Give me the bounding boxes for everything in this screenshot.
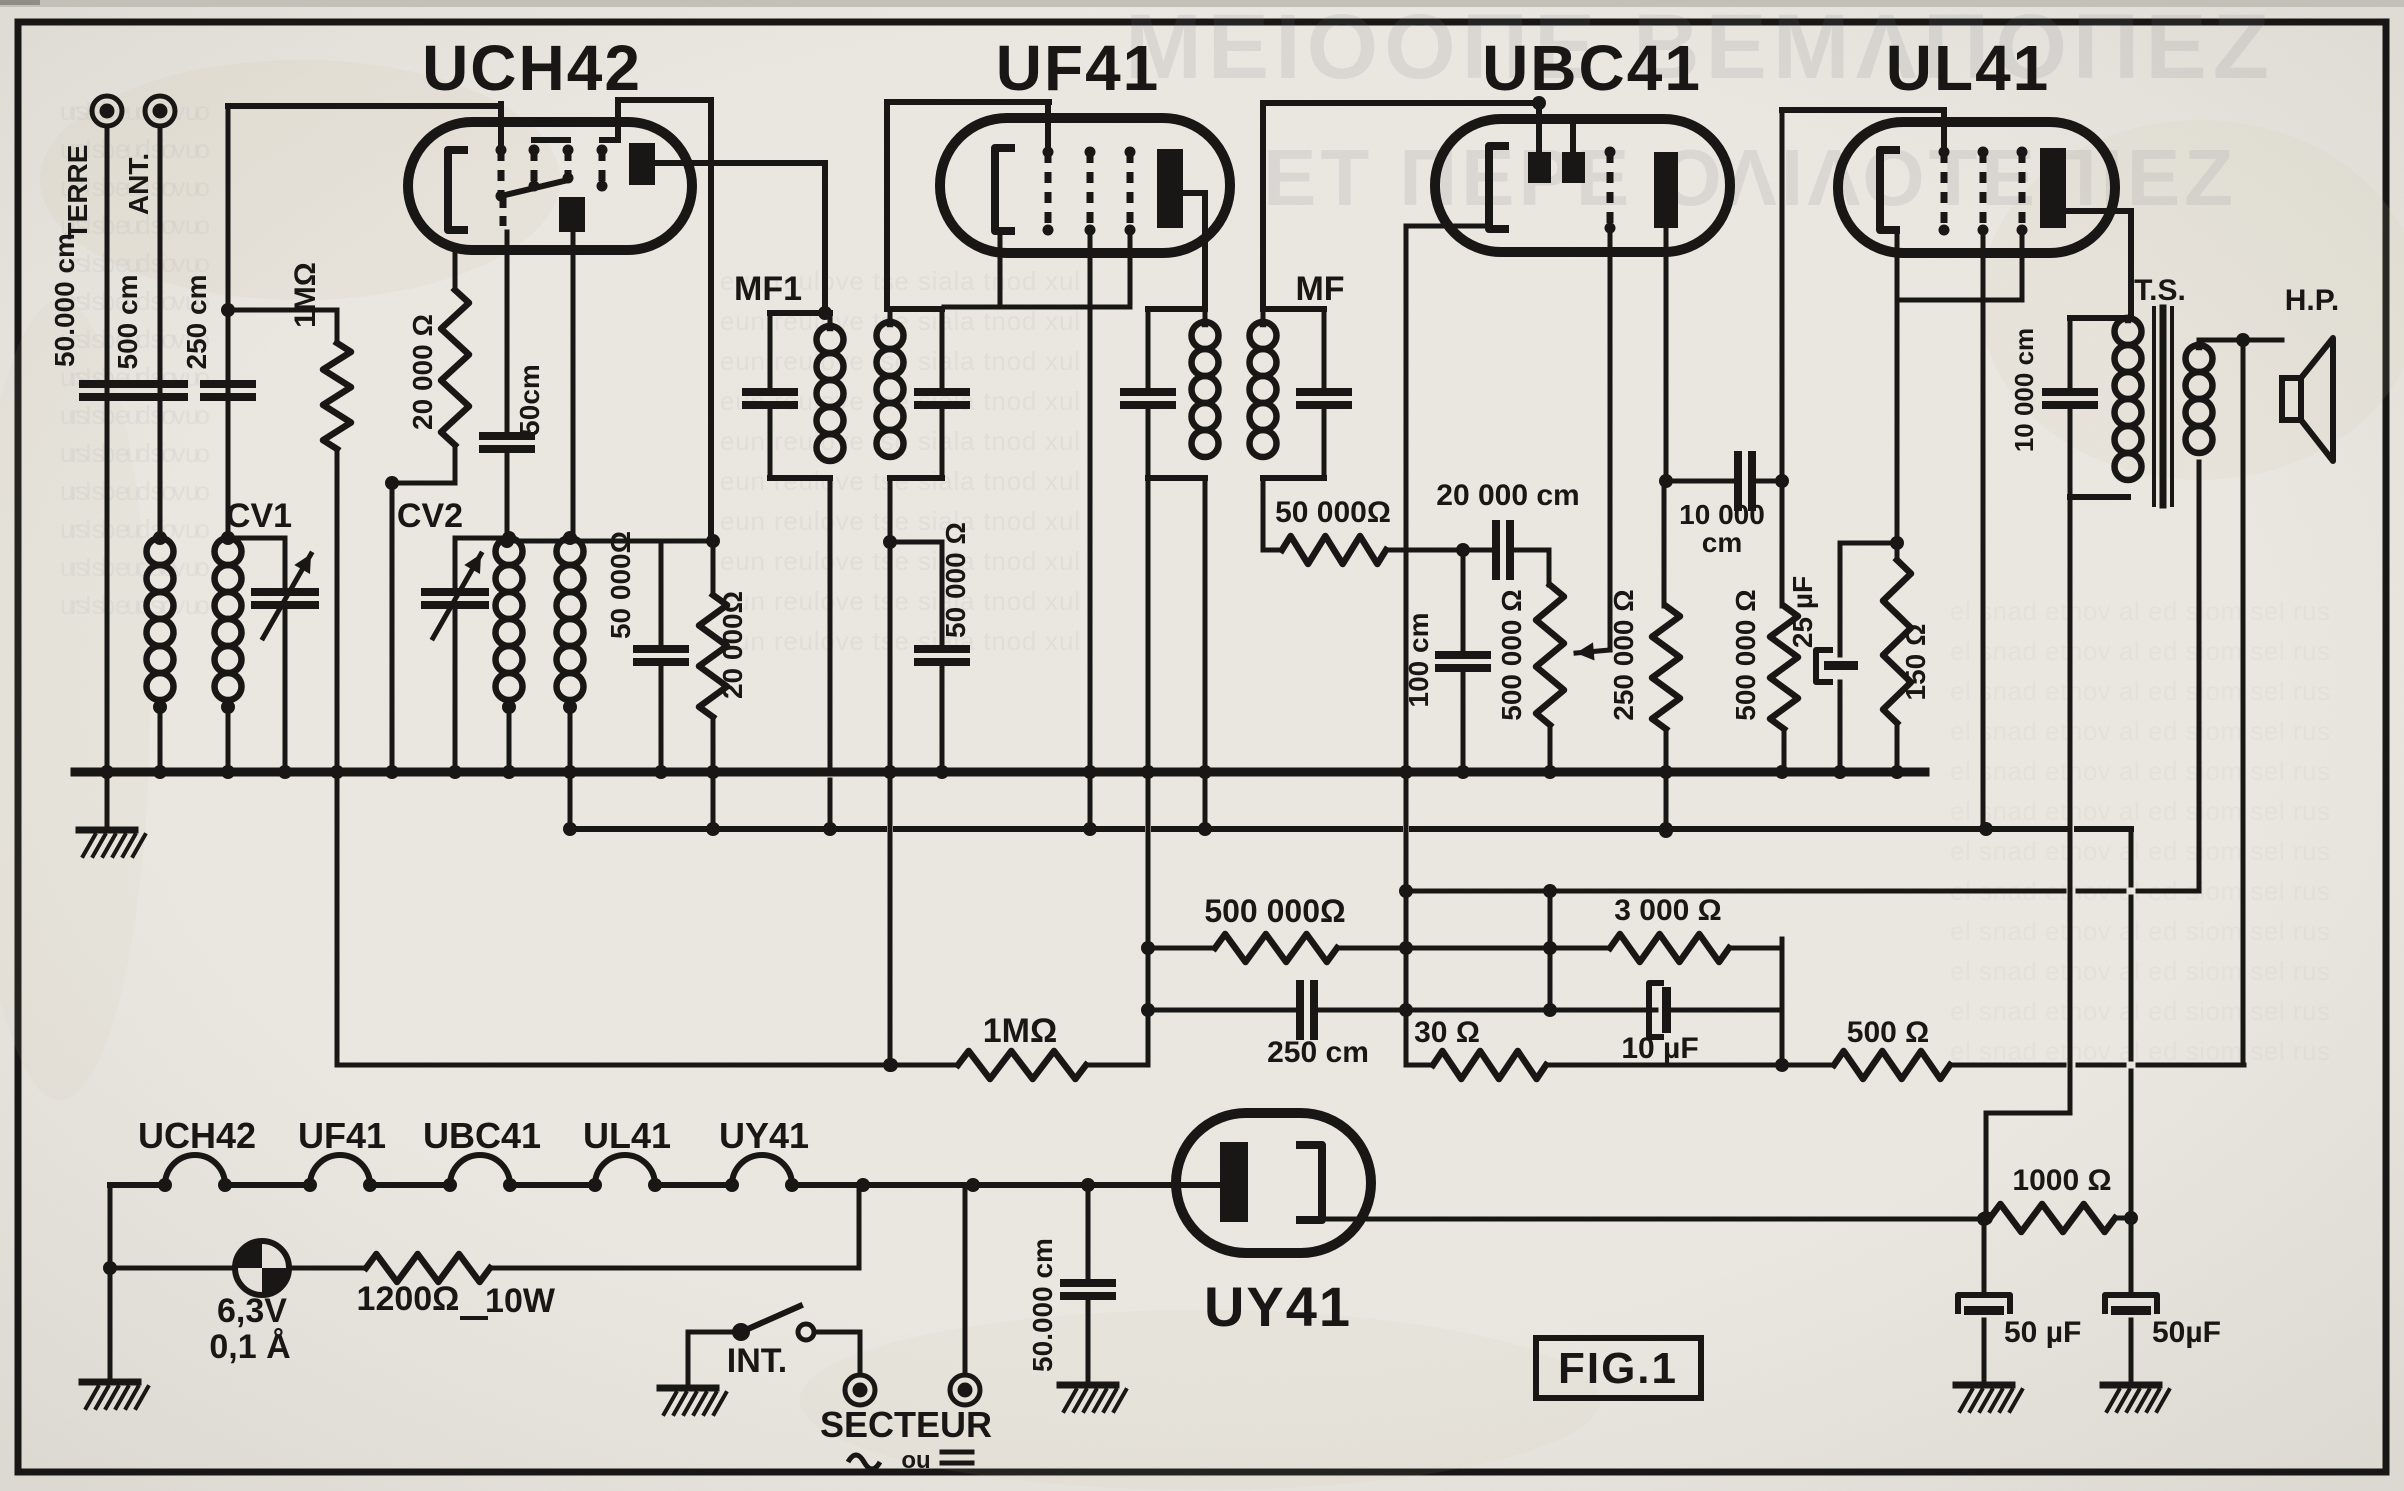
svg-text:FIG.1: FIG.1: [1558, 1344, 1678, 1393]
svg-text:el snad etnov al ed siom sel r: el snad etnov al ed siom sel rus: [1950, 836, 2330, 866]
svg-text:50 000Ω: 50 000Ω: [605, 531, 636, 639]
svg-text:10 µF: 10 µF: [1621, 1032, 1698, 1065]
svg-text:30 Ω: 30 Ω: [1414, 1016, 1480, 1049]
svg-text:150 Ω: 150 Ω: [1900, 624, 1931, 701]
svg-text:500 000 Ω: 500 000 Ω: [1730, 589, 1761, 720]
svg-text:eun reulove tse siala tnod xul: eun reulove tse siala tnod xul: [720, 506, 1080, 536]
svg-text:eun reulove tse siala tnod xul: eun reulove tse siala tnod xul: [720, 626, 1080, 656]
svg-text:MF1: MF1: [734, 270, 802, 308]
svg-text:el snad etnov al ed siom sel r: el snad etnov al ed siom sel rus: [1950, 636, 2330, 666]
svg-text:el snad etnov al ed siom sel r: el snad etnov al ed siom sel rus: [1950, 916, 2330, 946]
svg-text:TERRE: TERRE: [62, 145, 93, 240]
svg-text:UF41: UF41: [996, 32, 1161, 104]
svg-text:UBC41: UBC41: [1482, 32, 1702, 104]
svg-text:el snad etnov al ed siom sel r: el snad etnov al ed siom sel rus: [1950, 996, 2330, 1026]
svg-text:3 000 Ω: 3 000 Ω: [1614, 894, 1721, 927]
svg-text:50cm: 50cm: [514, 364, 545, 436]
svg-text:INT.: INT.: [727, 1342, 787, 1380]
svg-text:UY41: UY41: [719, 1115, 809, 1156]
svg-text:CV1: CV1: [226, 497, 292, 535]
svg-text:MF: MF: [1295, 270, 1344, 308]
svg-text:UBC41: UBC41: [423, 1115, 541, 1156]
svg-text:50µF: 50µF: [2152, 1316, 2221, 1349]
svg-text:UF41: UF41: [298, 1115, 386, 1156]
svg-text:UL41: UL41: [1886, 32, 2051, 104]
svg-text:H.P.: H.P.: [2285, 284, 2339, 317]
svg-text:1MΩ: 1MΩ: [983, 1012, 1058, 1050]
svg-text:el snad etnov al ed siom sel r: el snad etnov al ed siom sel rus: [1950, 756, 2330, 786]
svg-text:SECTEUR: SECTEUR: [820, 1404, 992, 1445]
svg-text:UL41: UL41: [583, 1115, 671, 1156]
svg-text:500 000Ω: 500 000Ω: [1204, 893, 1345, 929]
svg-text:el snad etnov al ed siom sel r: el snad etnov al ed siom sel rus: [1950, 1036, 2330, 1066]
svg-text:UY41: UY41: [1204, 1275, 1352, 1338]
svg-text:500 cm: 500 cm: [112, 275, 143, 370]
svg-text:el snad etnov al ed siom sel r: el snad etnov al ed siom sel rus: [1950, 796, 2330, 826]
svg-text:25 µF: 25 µF: [1787, 576, 1818, 648]
svg-text:50 000 Ω: 50 000 Ω: [940, 522, 971, 638]
svg-text:500 Ω: 500 Ω: [1847, 1016, 1929, 1049]
svg-text:50.000 cm: 50.000 cm: [49, 233, 80, 367]
svg-text:10W: 10W: [485, 1282, 556, 1320]
svg-text:1MΩ: 1MΩ: [289, 262, 322, 328]
svg-text:20 000 Ω: 20 000 Ω: [407, 314, 438, 430]
svg-text:1000 Ω: 1000 Ω: [2012, 1164, 2111, 1197]
svg-text:20 000Ω: 20 000Ω: [717, 591, 748, 699]
svg-text:el snad etnov al ed siom sel r: el snad etnov al ed siom sel rus: [1950, 676, 2330, 706]
svg-text:UCH42: UCH42: [138, 1115, 256, 1156]
svg-text:500 000 Ω: 500 000 Ω: [1496, 589, 1527, 720]
svg-text:250 000 Ω: 250 000 Ω: [1608, 589, 1639, 720]
svg-text:50 µF: 50 µF: [2004, 1316, 2081, 1349]
svg-text:eun reulove tse siala tnod xul: eun reulove tse siala tnod xul: [720, 546, 1080, 576]
svg-text:1200Ω: 1200Ω: [357, 1280, 460, 1318]
svg-text:250 cm: 250 cm: [1267, 1036, 1369, 1069]
svg-text:10 000 cm: 10 000 cm: [2009, 328, 2039, 452]
svg-text:250 cm: 250 cm: [181, 275, 212, 370]
svg-text:eun reulove tse siala tnod xul: eun reulove tse siala tnod xul: [720, 586, 1080, 616]
svg-text:cm: cm: [1702, 527, 1742, 558]
svg-text:50 000Ω: 50 000Ω: [1275, 496, 1391, 529]
svg-text:CV2: CV2: [397, 497, 463, 535]
svg-text:el snad etnov al ed siom sel r: el snad etnov al ed siom sel rus: [1950, 596, 2330, 626]
svg-text:6,3V: 6,3V: [217, 1292, 287, 1330]
svg-text:0,1 Å: 0,1 Å: [209, 1328, 290, 1366]
svg-text:ou: ou: [901, 1447, 930, 1474]
svg-text:el snad etnov al ed siom sel r: el snad etnov al ed siom sel rus: [1950, 716, 2330, 746]
svg-text:UCH42: UCH42: [422, 32, 642, 104]
svg-text:50.000 cm: 50.000 cm: [1027, 1238, 1058, 1372]
svg-text:T.S.: T.S.: [2134, 274, 2186, 307]
svg-text:el snad etnov al ed siom sel r: el snad etnov al ed siom sel rus: [1950, 956, 2330, 986]
svg-text:ANT.: ANT.: [123, 153, 154, 215]
svg-text:20 000 cm: 20 000 cm: [1436, 479, 1579, 512]
svg-text:10 000: 10 000: [1679, 499, 1765, 530]
svg-text:100 cm: 100 cm: [1403, 613, 1434, 708]
